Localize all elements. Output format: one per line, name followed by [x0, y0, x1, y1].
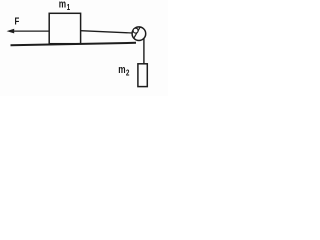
string from block to pulley	[81, 31, 133, 33]
svg-text:m: m	[118, 64, 126, 76]
pulley string wrap diagonal	[134, 27, 141, 39]
svg-text:2: 2	[126, 68, 130, 78]
force arrow F	[14, 30, 50, 32]
string from pulley to hanging mass	[143, 39, 145, 64]
pulley wheel	[132, 27, 146, 41]
table surface	[11, 43, 137, 45]
pulley hub	[133, 28, 138, 33]
hanging mass m2	[138, 64, 147, 87]
svg-text:1: 1	[67, 2, 71, 12]
svg-text:F: F	[15, 16, 20, 27]
block m1	[49, 13, 80, 43]
svg-text:m: m	[59, 0, 67, 11]
